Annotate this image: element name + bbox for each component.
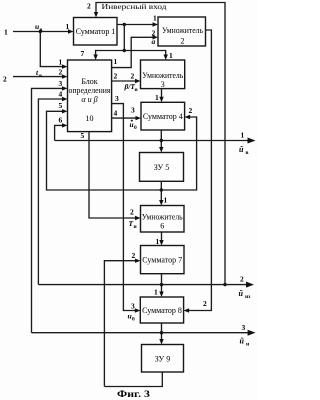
wire beta/Ti from block10 pin2 to multiplier 3 pin2 bbox=[112, 79, 141, 83]
svg-text:5: 5 bbox=[59, 101, 63, 110]
svg-text:1: 1 bbox=[114, 57, 118, 66]
wire summator 4 output down bbox=[159, 130, 163, 153]
wire memory 5 output down to multiplier 6 top bbox=[159, 181, 163, 205]
svg-text:Сумматор 4: Сумматор 4 bbox=[143, 112, 183, 121]
svg-text:2: 2 bbox=[131, 72, 135, 81]
svg-text:Умножитель: Умножитель bbox=[162, 26, 203, 35]
wire branch down from summator1 output bbox=[123, 25, 125, 51]
wire summator 1 output to multiplier 2 pin1 bbox=[117, 22, 158, 26]
wire multiplier 6 output to summator 7 top bbox=[159, 232, 163, 246]
label Ti bbox=[129, 219, 138, 230]
svg-text:1: 1 bbox=[66, 22, 70, 31]
svg-text:Умножитель: Умножитель bbox=[142, 213, 183, 222]
wire inverse input feedback from u_iz line to summator 1 top bbox=[94, 3, 225, 285]
svg-text:6: 6 bbox=[160, 222, 164, 231]
svg-text:из: из bbox=[245, 294, 251, 300]
svg-text:Блок: Блок bbox=[81, 77, 97, 86]
svg-text:1: 1 bbox=[155, 93, 159, 102]
svg-text:1: 1 bbox=[241, 131, 245, 140]
svg-text:2: 2 bbox=[87, 2, 91, 11]
wire input 2 t_v to block10 pin2 bbox=[13, 74, 68, 78]
multiplier U6 "Умножитель 6" bbox=[141, 206, 185, 233]
svg-text:2: 2 bbox=[114, 72, 118, 81]
svg-text:3: 3 bbox=[161, 80, 165, 89]
wire memory 9 riser to summator 7 pin2 bbox=[104, 259, 140, 387]
wire multiplier 2 output down to summator 8 pin2 bbox=[184, 30, 212, 313]
svg-text:ЗУ 9: ЗУ 9 bbox=[155, 355, 170, 364]
memory U9 "ЗУ 9" bbox=[142, 345, 184, 373]
svg-text:3: 3 bbox=[131, 302, 135, 311]
summator U7 "Сумматор 7" bbox=[141, 246, 185, 274]
wire alpha from block10 pin1 to multiplier 2 pin2 bbox=[112, 35, 158, 68]
svg-text:в: в bbox=[39, 73, 42, 79]
svg-text:Сумматор 8: Сумматор 8 bbox=[142, 306, 182, 315]
svg-text:в: в bbox=[40, 27, 43, 33]
svg-text:3: 3 bbox=[131, 106, 135, 115]
label u0-dot bbox=[130, 120, 138, 131]
svg-text:2: 2 bbox=[189, 106, 193, 115]
node B junction dot on summator1 output bbox=[123, 23, 126, 26]
svg-text:1: 1 bbox=[153, 14, 157, 23]
svg-text:2: 2 bbox=[3, 75, 7, 84]
summator U4 "Сумматор 4" bbox=[141, 102, 185, 130]
memory U5 "ЗУ 5" bbox=[140, 153, 184, 182]
label u_n-tilde bbox=[240, 337, 251, 348]
wire summator 7 output down to summator 8 top bbox=[159, 274, 163, 297]
svg-text:0: 0 bbox=[134, 125, 137, 131]
svg-text:2: 2 bbox=[203, 299, 207, 308]
node feedback tap dot bbox=[223, 283, 226, 286]
svg-text:1: 1 bbox=[156, 237, 160, 246]
svg-text:1: 1 bbox=[4, 28, 8, 37]
svg-text:1: 1 bbox=[59, 58, 63, 67]
svg-text:10: 10 bbox=[86, 114, 94, 123]
wire u_v branch to block10 pin1 bbox=[40, 32, 67, 69]
wire u_n output 3 line and branch to block10 pin3 bbox=[32, 86, 256, 336]
wire summator 8 output down to memory 9 bbox=[159, 323, 163, 345]
block10 right pin numbers 1..4 bbox=[114, 57, 120, 118]
svg-text:определения: определения bbox=[69, 86, 111, 95]
block10 left pin numbers 1..6 bbox=[59, 58, 63, 125]
svg-text:Фиг. 3: Фиг. 3 bbox=[117, 389, 151, 399]
svg-text:7: 7 bbox=[81, 49, 85, 58]
svg-text:0: 0 bbox=[132, 317, 135, 323]
wire block10 pin3 u0 down to summator 8 pin3 bbox=[112, 104, 141, 313]
svg-text:α и β: α и β bbox=[81, 95, 97, 104]
wire memory 5 output right up to summator 4 pin2 bbox=[161, 115, 196, 190]
wire memory 5 output left to block10 pin5 bbox=[47, 109, 162, 190]
node E junction dot memory5 output bbox=[160, 188, 163, 191]
label u_iz-tilde bbox=[239, 289, 252, 300]
node D junction dot u_v-tilde bbox=[160, 139, 163, 142]
svg-text:4: 4 bbox=[114, 109, 118, 118]
svg-text:3: 3 bbox=[242, 323, 246, 332]
multiplier U3 "Умножитель 3" bbox=[141, 60, 185, 89]
svg-text:Сумматор 1: Сумматор 1 bbox=[76, 27, 116, 36]
label beta/Ti bbox=[124, 82, 139, 93]
svg-text:5: 5 bbox=[81, 131, 85, 140]
node A junction dot on u_v wire bbox=[39, 30, 42, 33]
svg-text:ЗУ 5: ЗУ 5 bbox=[154, 163, 169, 172]
wire multiplier 3 output to summator 4 top bbox=[159, 89, 163, 103]
svg-text:4: 4 bbox=[59, 90, 63, 99]
svg-text:2: 2 bbox=[130, 208, 134, 217]
wire memory 9 output down-left to riser bbox=[104, 372, 162, 387]
wire block10 bottom pin5 Ti to multiplier 6 pin2 bbox=[89, 132, 141, 221]
svg-text:ũ: ũ bbox=[240, 337, 245, 346]
svg-text:1: 1 bbox=[164, 196, 168, 205]
block U10 "Блок определения α и β" bbox=[68, 60, 112, 132]
multiplier U2 "Умножитель 2" bbox=[158, 17, 206, 46]
wire u_v-tilde output 1 line and branch to block10 pin6 bbox=[55, 123, 256, 143]
svg-text:a: a bbox=[152, 37, 156, 46]
svg-text:2: 2 bbox=[181, 37, 185, 46]
label u0 bbox=[128, 312, 136, 323]
svg-text:Инверсный вход: Инверсный вход bbox=[102, 2, 167, 11]
label u_v-tilde bbox=[239, 145, 249, 156]
svg-text:1: 1 bbox=[169, 51, 173, 60]
svg-text:2: 2 bbox=[240, 275, 244, 284]
label u_v bbox=[35, 22, 43, 33]
svg-text:1: 1 bbox=[154, 288, 158, 297]
svg-text:6: 6 bbox=[59, 116, 63, 125]
svg-text:в: в bbox=[246, 150, 249, 156]
wire block10 pin4 u0-dot to summator 4 pin3 bbox=[112, 116, 141, 120]
svg-text:Сумматор 7: Сумматор 7 bbox=[142, 256, 182, 265]
svg-text:Умножитель: Умножитель bbox=[142, 71, 183, 80]
summator U1 "Сумматор 1" bbox=[74, 18, 118, 46]
summator U8 "Сумматор 8" bbox=[140, 297, 183, 323]
svg-text:2: 2 bbox=[132, 251, 136, 260]
svg-text:ũ: ũ bbox=[239, 145, 244, 154]
wire u_iz output 2 line and branch to block10 pin4 bbox=[38, 97, 254, 288]
svg-text:2: 2 bbox=[59, 68, 63, 77]
node G junction dot u_n bbox=[160, 331, 163, 334]
svg-text:ũ: ũ bbox=[239, 289, 244, 298]
label t_v bbox=[36, 68, 42, 79]
node C junction dot bbox=[123, 49, 126, 52]
node F junction dot u_iz bbox=[160, 283, 163, 286]
svg-text:3: 3 bbox=[59, 79, 63, 88]
svg-text:3: 3 bbox=[115, 94, 119, 103]
wire input 1 u_v to summator 1 bbox=[13, 29, 74, 33]
wire delta-u to block10 pin7 and multiplier 3 pin1 bbox=[93, 51, 167, 61]
